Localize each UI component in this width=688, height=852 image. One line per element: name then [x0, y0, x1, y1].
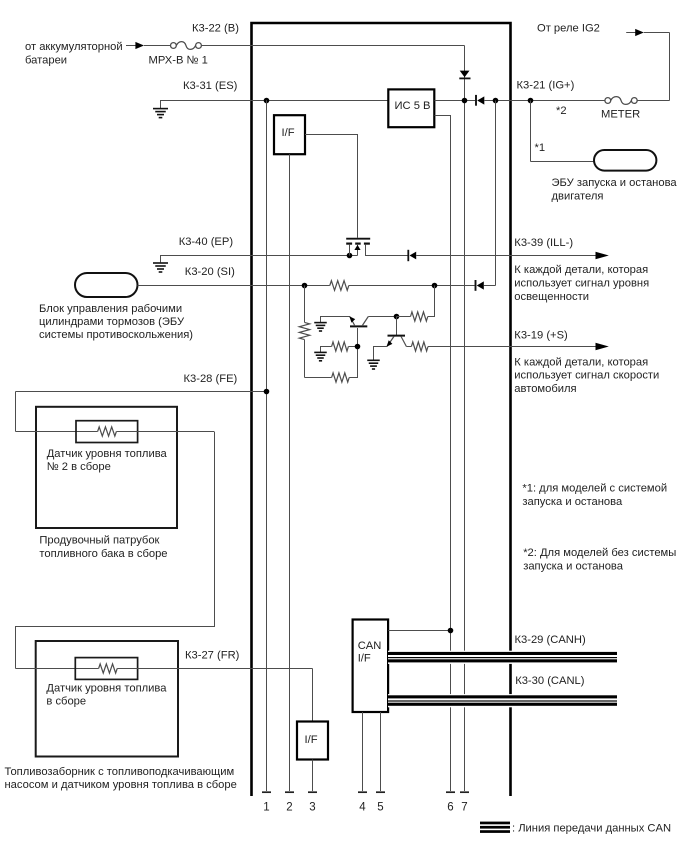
svg-text:Блок управления рабочими: Блок управления рабочими — [39, 303, 182, 315]
svg-text:К3-30 (CANL): К3-30 (CANL) — [515, 675, 585, 687]
svg-text:двигателя: двигателя — [552, 191, 604, 203]
svg-text:топливного бака в сборе: топливного бака в сборе — [39, 548, 167, 560]
svg-text:К3-21 (IG+): К3-21 (IG+) — [517, 80, 575, 92]
svg-text:ИС 5 В: ИС 5 В — [395, 100, 431, 112]
svg-text:METER: METER — [601, 109, 640, 121]
svg-text:К3-27 (FR): К3-27 (FR) — [185, 650, 240, 662]
svg-text:использует сигнал скорости: использует сигнал скорости — [514, 370, 659, 382]
svg-text:Продувочный патрубок: Продувочный патрубок — [39, 535, 159, 547]
svg-text:насосом и датчиком уровня топл: насосом и датчиком уровня топлива в сбор… — [5, 779, 237, 791]
svg-text:от аккумуляторной: от аккумуляторной — [25, 41, 123, 53]
svg-text:: Линия передачи данных CAN: : Линия передачи данных CAN — [512, 822, 671, 834]
svg-text:5: 5 — [377, 802, 383, 814]
svg-text:цилиндрами тормозов (ЭБУ: цилиндрами тормозов (ЭБУ — [39, 316, 185, 328]
svg-text:К3-28 (FE): К3-28 (FE) — [184, 373, 238, 385]
svg-text:Датчик уровня топлива: Датчик уровня топлива — [47, 448, 168, 460]
svg-text:запуска и останова: запуска и останова — [522, 496, 623, 508]
svg-text:I/F: I/F — [282, 127, 295, 139]
svg-text:I/F: I/F — [358, 653, 371, 665]
svg-text:К3-39 (ILL-): К3-39 (ILL-) — [514, 237, 573, 249]
svg-text:2: 2 — [286, 802, 292, 814]
svg-text:4: 4 — [359, 802, 366, 814]
svg-text:№ 2 в сборе: № 2 в сборе — [47, 461, 111, 473]
svg-text:*1: *1 — [535, 142, 546, 154]
svg-text:К каждой детали, которая: К каждой детали, которая — [514, 264, 648, 276]
svg-text:*2: Для моделей без системы: *2: Для моделей без системы — [523, 547, 676, 559]
svg-text:К3-40 (EP): К3-40 (EP) — [179, 236, 234, 248]
svg-text:К3-19 (+S): К3-19 (+S) — [514, 330, 568, 342]
svg-text:Топливозаборник с топливоподка: Топливозаборник с топливоподкачивающим — [5, 766, 235, 778]
svg-text:*2: *2 — [556, 105, 567, 117]
svg-text:3: 3 — [309, 802, 315, 814]
svg-text:I/F: I/F — [305, 734, 318, 746]
svg-text:К каждой детали, которая: К каждой детали, которая — [514, 356, 648, 368]
svg-text:От реле IG2: От реле IG2 — [537, 23, 600, 35]
svg-text:ЭБУ запуска и останова: ЭБУ запуска и останова — [552, 177, 678, 189]
svg-text:*1: для моделей с системой: *1: для моделей с системой — [522, 483, 667, 495]
svg-text:системы противоскольжения): системы противоскольжения) — [39, 329, 193, 341]
svg-text:батареи: батареи — [25, 55, 67, 67]
svg-text:7: 7 — [461, 802, 467, 814]
svg-text:МРХ-В № 1: МРХ-В № 1 — [149, 55, 208, 67]
svg-text:6: 6 — [447, 802, 453, 814]
svg-text:автомобиля: автомобиля — [514, 383, 576, 395]
svg-text:К3-31 (ES): К3-31 (ES) — [183, 80, 238, 92]
svg-text:использует сигнал уровня: использует сигнал уровня — [514, 277, 649, 289]
svg-text:К3-29 (CANH): К3-29 (CANH) — [515, 634, 586, 646]
svg-text:Датчик уровня топлива: Датчик уровня топлива — [46, 683, 167, 695]
svg-text:запуска и останова: запуска и останова — [523, 561, 624, 573]
svg-text:К3-20 (SI): К3-20 (SI) — [185, 266, 235, 278]
svg-text:в сборе: в сборе — [46, 696, 86, 708]
svg-text:CAN: CAN — [358, 640, 382, 652]
svg-text:К3-22 (В): К3-22 (В) — [192, 23, 239, 35]
svg-text:1: 1 — [263, 802, 269, 814]
svg-text:освещенности: освещенности — [514, 291, 589, 303]
